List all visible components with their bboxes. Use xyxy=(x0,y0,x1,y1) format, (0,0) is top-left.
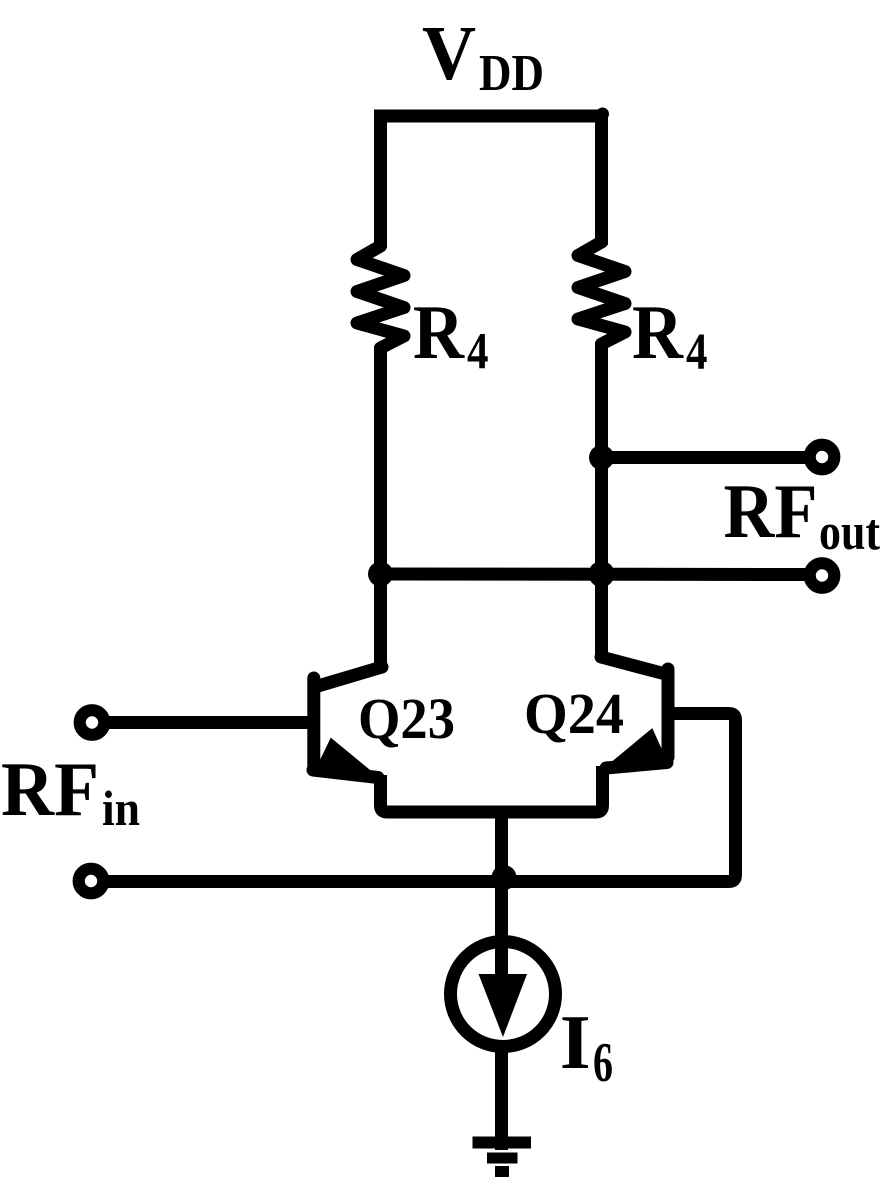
wire emitter bus (U shape joining emitters) xyxy=(381,766,603,812)
wire right rail upper (VDD to R4 right) xyxy=(595,116,608,245)
emitter arrow xyxy=(604,728,667,768)
svg-text:Q23: Q23 xyxy=(358,686,455,751)
base bar xyxy=(662,669,675,757)
emitter line xyxy=(606,763,667,769)
wire Q24 base loop (base right, down to bottom wire) xyxy=(674,714,736,882)
label RFin xyxy=(1,746,140,836)
label R4 right xyxy=(632,289,708,381)
emitter arrow xyxy=(318,738,380,779)
transistor Q23 xyxy=(313,667,382,778)
svg-text:I: I xyxy=(560,999,591,1085)
wire current source to ground xyxy=(495,1040,508,1150)
wire tail to current source xyxy=(495,882,508,975)
node junction dot left rail xyxy=(368,562,393,587)
wire RFin- (terminal to Q24 base loop) xyxy=(103,875,729,888)
wire VDD top rail xyxy=(374,110,603,123)
label R4 left xyxy=(413,289,489,380)
wire RFin+ (terminal to Q23 base) xyxy=(104,716,313,729)
svg-text:4: 4 xyxy=(686,324,708,381)
collector diagonal xyxy=(318,667,382,686)
base bar xyxy=(307,678,320,769)
wire left rail upper (VDD to R4 left) xyxy=(374,116,387,248)
ground xyxy=(473,1143,532,1172)
svg-text:R: R xyxy=(413,289,465,375)
resistor R4 right xyxy=(578,242,625,344)
current source I6 xyxy=(451,942,556,1047)
svg-text:Q24: Q24 xyxy=(524,681,624,746)
node junction dot right rail / RFout top xyxy=(589,445,614,470)
resistor R4 left xyxy=(357,246,404,348)
label VDD xyxy=(422,10,544,102)
wire node row (left rail to RFout bottom terminal) xyxy=(381,568,808,582)
node junction dot right rail xyxy=(589,561,615,587)
svg-text:RF: RF xyxy=(724,468,818,554)
terminal RFin bottom xyxy=(79,869,104,894)
transistor Q24 xyxy=(601,657,668,769)
terminal RFout bottom xyxy=(810,563,835,588)
svg-text:R: R xyxy=(632,289,684,375)
label I6 xyxy=(560,999,613,1094)
wire left rail lower (R4 to Q23 collector) xyxy=(374,346,387,667)
terminal RFout top xyxy=(810,445,835,470)
svg-text:V: V xyxy=(422,10,476,96)
terminal RFin top xyxy=(80,710,105,735)
label RFout xyxy=(724,468,881,561)
svg-text:RF: RF xyxy=(1,746,99,832)
wire center tap (bus to tail node) xyxy=(495,812,508,882)
svg-text:6: 6 xyxy=(593,1032,613,1094)
svg-text:in: in xyxy=(102,780,140,836)
wire right rail lower (R4 to Q24 collector) xyxy=(595,342,608,657)
collector diagonal xyxy=(601,657,664,674)
emitter line xyxy=(313,770,378,778)
node junction dot tail xyxy=(492,865,517,890)
wire RFout top (node to terminal) xyxy=(602,451,808,464)
svg-text:4: 4 xyxy=(467,323,489,380)
svg-text:out: out xyxy=(819,504,881,561)
svg-text:DD: DD xyxy=(479,45,544,102)
